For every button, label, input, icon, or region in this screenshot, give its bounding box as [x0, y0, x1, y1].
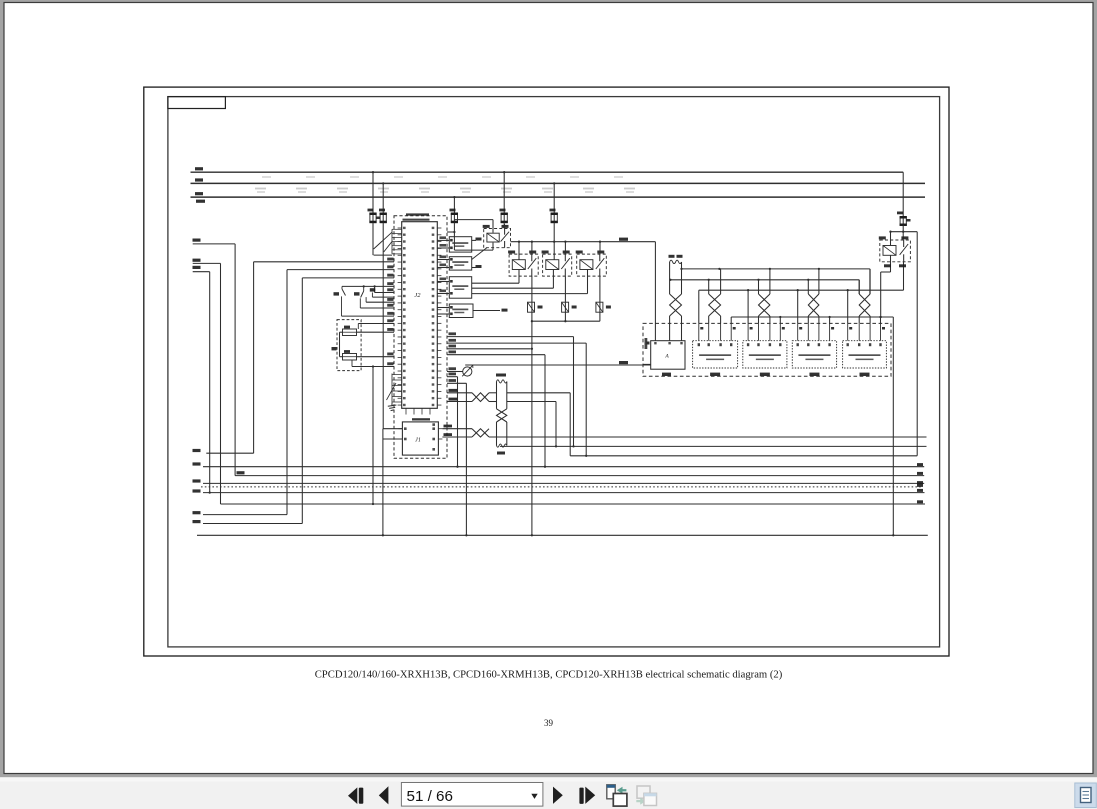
wire J1 left pin 2	[383, 438, 403, 440]
label right dotted	[917, 484, 923, 487]
label left E	[193, 489, 201, 492]
toolbar input dropdown caret	[531, 794, 537, 799]
label left wH	[193, 520, 201, 523]
schematic inner border frame	[168, 97, 940, 647]
wire w3 top	[193, 271, 210, 273]
wire #27 line from K1	[511, 241, 656, 243]
module J1 body	[402, 422, 438, 455]
switch S2	[354, 286, 364, 308]
wire line B	[203, 466, 924, 468]
wire line C	[235, 475, 924, 477]
bus label ZM	[196, 200, 205, 203]
wire sender box bottom row	[352, 366, 394, 368]
wire F3 lower branches	[453, 222, 455, 250]
twisted pair TP-B	[472, 429, 489, 437]
toolbar next-page button	[553, 787, 563, 804]
label left wA	[193, 449, 201, 452]
wire drop x586	[585, 343, 587, 456]
twisted pair TP2	[709, 294, 721, 316]
module JP1 box	[693, 341, 738, 376]
diode box D2	[562, 302, 569, 312]
cable sheath TP1	[669, 255, 683, 294]
switch S1	[334, 286, 346, 316]
cable shield tube	[496, 374, 507, 455]
wire line H	[203, 523, 302, 525]
wire pin row 6	[447, 382, 466, 384]
wire K3 coil bottom to M3	[552, 270, 554, 289]
wire K5 coil bottom jog	[890, 255, 892, 272]
module JP3 pin stubs	[798, 323, 834, 340]
wire fuse F2 drop	[382, 183, 384, 213]
module JP1 pin stubs	[699, 323, 736, 340]
wire L3 pin drops	[747, 290, 749, 323]
wire w1 drop	[234, 244, 236, 476]
bus label B2	[195, 178, 203, 181]
connector J2 left pins	[398, 227, 406, 406]
wire pin row 1	[447, 336, 574, 338]
toolbar page input box	[401, 783, 543, 807]
wire w2 top	[193, 262, 221, 264]
wire CANH lower	[442, 428, 472, 430]
label LP	[237, 471, 245, 474]
wire K1 diagonal to module M2	[472, 248, 487, 260]
wire TP3 tails	[758, 316, 760, 323]
wire H to J2 pin	[302, 277, 394, 279]
distribution dashed box	[643, 323, 891, 376]
connector J2 bottom stubs	[406, 408, 430, 414]
wire L3	[699, 289, 904, 291]
wire TP4 tails	[807, 316, 809, 323]
terminal ladder upper-left of J2	[392, 229, 402, 254]
relay K1	[483, 225, 511, 248]
module JP4 pin stubs	[848, 323, 885, 340]
relay K2	[508, 251, 538, 277]
module M4	[437, 304, 473, 318]
wire K2 contact drop long	[531, 276, 533, 535]
label left wD	[193, 479, 201, 482]
pin labels left of J2	[387, 258, 393, 366]
wire bus1 corner to fuse F6	[902, 172, 904, 217]
wire CANL lower	[442, 436, 472, 438]
wire H riser	[301, 278, 303, 524]
ground symbol	[388, 404, 397, 411]
wire drop x893 to rail	[892, 317, 894, 535]
svg-text:J1: J1	[415, 438, 421, 444]
label CANL	[444, 433, 453, 436]
label K5 below	[884, 264, 891, 267]
toolbar next-view icon disabled	[636, 786, 656, 806]
wire K2 coil top to #27	[518, 242, 520, 260]
wire K1 contact to fuse	[504, 224, 506, 229]
svg-text:51 / 66: 51 / 66	[407, 788, 453, 805]
wire line I ground rail	[197, 534, 928, 536]
module J1 dashed title	[412, 418, 430, 420]
wire K5 coil top	[890, 232, 892, 246]
connector J2 dashed enclosure	[394, 216, 447, 459]
wire F2 long drop	[382, 255, 384, 429]
wire line y455	[570, 455, 917, 457]
sender unit dashed box B	[337, 320, 361, 371]
wire K3 contact drop	[564, 276, 566, 321]
module M3	[437, 277, 471, 299]
relay K3	[542, 251, 572, 277]
label left w2	[193, 259, 201, 262]
bus label B3	[195, 192, 203, 195]
label right B	[917, 463, 923, 466]
module JP2 pin stubs	[748, 323, 785, 340]
wire sender1 to J2	[357, 331, 395, 333]
wire CANH upper	[447, 392, 472, 394]
wire switch row 6	[342, 315, 395, 317]
connector J2 right pins	[432, 227, 442, 406]
toolbar previous-page button	[379, 786, 389, 804]
twisted pair TP-A	[472, 393, 489, 402]
wire TP2 feeders	[708, 280, 710, 294]
fuse F4	[503, 213, 505, 222]
faint wire-number text rows between buses	[255, 176, 635, 193]
svg-text:J2: J2	[414, 292, 421, 299]
label right C	[917, 472, 923, 475]
toolbar background	[0, 777, 1097, 809]
wire drop x556	[555, 402, 557, 447]
svg-text:CPCD120/140/160-XRXH13B, CPCD1: CPCD120/140/160-XRXH13B, CPCD160-XRMH13B…	[315, 670, 783, 681]
wire #27 drop to module A	[654, 242, 656, 341]
wire pin row 4	[447, 354, 545, 356]
wire switch row 5	[360, 307, 394, 309]
wire shield exit upper	[507, 392, 570, 394]
wire M4 output	[473, 310, 500, 312]
wire pin row 2	[447, 342, 586, 344]
wire drop x466	[465, 383, 467, 535]
fuse F1	[372, 213, 374, 222]
wire drop x573	[573, 337, 575, 447]
toolbar previous-view icon	[607, 785, 627, 806]
wire K2 contact top to #27	[531, 242, 533, 254]
wire fuse F3 drop	[453, 197, 455, 213]
wire fuse F1 drop	[372, 172, 374, 213]
wire line G	[203, 514, 287, 516]
wire CANL upper	[447, 401, 472, 403]
toolbar last-page button	[579, 788, 583, 804]
sender element 2	[343, 354, 357, 361]
wire shield exit lower	[507, 401, 556, 403]
wire bus line 2	[191, 182, 926, 184]
bus label B1	[195, 167, 203, 170]
sender internal wire	[340, 331, 343, 333]
wire drop x457	[457, 377, 459, 467]
label right D	[917, 481, 923, 484]
svg-text:39: 39	[544, 718, 554, 728]
connector J2 title	[406, 213, 429, 215]
label left w3	[193, 266, 201, 269]
wire F4 to relay K1 contact	[503, 222, 505, 228]
wire A riser	[253, 262, 255, 453]
label CANH	[444, 425, 453, 428]
module J1 pins	[398, 423, 442, 450]
wire L2	[670, 279, 859, 281]
twisted pair TP1	[670, 294, 682, 316]
wire K4 contact drop	[599, 276, 601, 321]
label right F	[917, 500, 923, 503]
wire lower pair right 1	[489, 436, 927, 438]
wire w3 drop	[209, 272, 211, 493]
wire line E	[203, 492, 925, 494]
wire line D	[203, 482, 924, 484]
wire fuse F5 drop	[553, 183, 555, 213]
module M2	[437, 257, 471, 270]
module A pin ticks	[654, 342, 656, 344]
wire TP2 tails	[708, 316, 710, 323]
wire switch row 4	[365, 297, 367, 302]
wire L4 pin drops	[779, 317, 781, 323]
svg-text:A: A	[664, 354, 669, 360]
toolbar sidebar toggle button	[1075, 783, 1097, 808]
wire relay node line	[891, 231, 918, 233]
wire sender2 to J2	[357, 356, 395, 358]
wire G riser	[286, 270, 288, 515]
sender element 1	[343, 329, 357, 336]
connector J2 body	[402, 222, 438, 409]
wire L1	[681, 268, 870, 270]
twisted pair TP3	[759, 294, 770, 316]
diode box D3	[596, 302, 603, 312]
wire K2 coil bottom to M3	[518, 270, 520, 284]
wire J1 left pin 1	[383, 428, 403, 430]
wire TP5 tails	[858, 316, 860, 323]
wire F2 to terminal ladder	[382, 222, 384, 255]
label #27	[619, 238, 628, 241]
fuse F6	[902, 217, 904, 225]
wire L3 corner drop	[698, 290, 700, 323]
wire F5 to relay K3 coil	[553, 222, 555, 259]
twisted pair TP4	[808, 294, 819, 316]
wire G to J2 pin	[287, 269, 394, 271]
terminal ladder lower-left of J2	[387, 374, 402, 404]
wire drop x545	[544, 355, 546, 467]
label right E	[917, 489, 923, 492]
wire K4 contact top to #27	[599, 242, 601, 254]
wire drop x373	[372, 367, 374, 505]
wire bus line 3	[191, 196, 926, 198]
wire riser x917	[916, 232, 918, 456]
wire switch row 1	[342, 285, 394, 287]
wire switch row 2	[374, 286, 376, 292]
wire TP1 tails	[669, 316, 671, 341]
wire #22 line	[465, 364, 651, 366]
fuse F2	[382, 213, 384, 222]
wire TP5 feeders	[858, 280, 860, 294]
wire pin row 5	[447, 376, 458, 378]
wire TP4 feeders	[807, 280, 809, 294]
wire TP3 feeders	[758, 280, 760, 294]
wire node line y321	[532, 320, 600, 322]
label B	[332, 347, 337, 350]
wire F1 F2 bottom junction	[374, 254, 392, 256]
label switch node	[370, 288, 376, 291]
wire F6 to node line	[902, 225, 904, 240]
wire fuse F4 drop	[503, 172, 505, 213]
fuse F3	[453, 213, 455, 222]
relay K4	[576, 251, 607, 277]
wire TP-A to shield	[489, 392, 497, 394]
wire line F	[221, 503, 926, 505]
wire bus line 1	[191, 171, 904, 173]
schematic outer border frame	[144, 87, 949, 656]
wire switch row 3	[371, 293, 373, 298]
module A box	[651, 341, 685, 370]
module JP3 box	[792, 341, 836, 376]
toolbar first-page button	[348, 787, 357, 804]
wire L2 end drop	[858, 280, 860, 294]
module M1	[437, 237, 471, 252]
diode box D1	[528, 302, 535, 312]
wire J1 drop to rail	[382, 429, 384, 536]
label left wB	[193, 462, 201, 465]
wire L4	[731, 316, 893, 318]
wire K3 contact top to #27	[564, 242, 566, 254]
wire L1 end drop	[869, 269, 871, 294]
wire dotted line	[201, 486, 921, 488]
wire module A left pin	[643, 363, 651, 365]
label #22	[619, 361, 628, 364]
relay K5	[879, 236, 911, 261]
wire lower pair right 2	[500, 445, 927, 447]
pin labels right of J2	[440, 236, 457, 382]
wire drop x570	[569, 393, 571, 456]
wire A to J2 pin	[254, 261, 394, 263]
title block box top-left	[168, 97, 226, 109]
fuse F5	[553, 213, 555, 222]
wire pot stub	[447, 371, 463, 373]
wire K5 contact bottom to L3	[903, 262, 905, 290]
wire K4 coil bottom to M3	[587, 270, 589, 294]
label left wG	[193, 511, 201, 514]
wire w2 drop	[220, 263, 222, 504]
wire line A	[206, 452, 253, 454]
wire sender top row	[358, 323, 394, 325]
module JP2 box	[743, 341, 787, 376]
label left w1	[193, 239, 201, 242]
twisted pair TP5	[859, 294, 870, 316]
wire w1 top	[193, 243, 235, 245]
wire L4 corner drop	[730, 317, 732, 323]
wire pin row 3	[447, 348, 531, 350]
wire F1 to terminal ladder	[372, 222, 374, 255]
potentiometer P1	[462, 365, 473, 376]
module JP4 box	[843, 341, 887, 376]
